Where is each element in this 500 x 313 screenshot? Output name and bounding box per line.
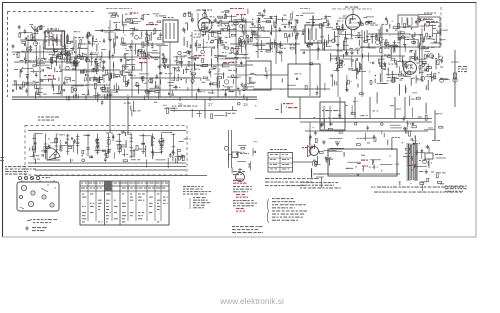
left margin marks — [0, 158, 4, 161]
power supply boundary box — [328, 149, 397, 176]
red annotation 11 — [250, 37, 257, 38]
interconnect wire h1 — [95, 30, 162, 32]
red annotation 16 — [426, 21, 438, 22]
output stage boundary — [418, 13, 440, 49]
red annotation 3 — [44, 33, 52, 34]
keyboard switch stack S5 — [76, 134, 80, 155]
red annotation 5 — [44, 75, 54, 76]
bandfilter can L1 — [45, 29, 65, 50]
interconnect wire h21 — [14, 61, 80, 63]
band switch components — [118, 52, 161, 100]
dial lamp symbols row — [18, 176, 50, 179]
tube V3 label — [345, 7, 358, 8]
red annotation 2 — [146, 24, 158, 25]
IF transformer can F1 — [163, 17, 178, 42]
keyboard right link components — [224, 141, 257, 173]
interconnect wire h3 — [212, 30, 305, 32]
keyboard top rail wire — [28, 130, 186, 132]
voltage table body values — [82, 194, 168, 223]
IF stage 2 components — [306, 15, 345, 52]
junction wire v10 — [454, 50, 456, 107]
PSU bottom wire — [313, 173, 400, 175]
red annotation 1 — [130, 13, 138, 14]
ratio detector box — [320, 102, 345, 130]
stage wire v4 — [146, 30, 148, 97]
top right wire — [418, 14, 432, 16]
stage wire v7 — [217, 32, 219, 97]
frame left border — [2, 2, 4, 237]
tube socket V3 position — [28, 201, 33, 206]
keyboard strip rail 1 — [28, 162, 186, 164]
keyboard unit dashed boundary — [25, 126, 187, 176]
detector lower components — [206, 50, 256, 99]
output transformer area components — [391, 52, 450, 90]
keyboard switch stack S12 — [151, 134, 155, 154]
keyboard switch stack S11 — [141, 134, 145, 154]
tube V1 label — [197, 10, 212, 11]
ground symbol antenna — [11, 44, 15, 48]
stage wire v17 — [421, 28, 423, 82]
red note column 1 — [233, 180, 246, 184]
junction wire v2 — [127, 101, 129, 135]
interconnect wire h4 — [12, 51, 70, 53]
interconnect wire h17 — [60, 69, 120, 71]
arrow note under chassis — [27, 219, 57, 223]
psu left components — [311, 148, 343, 188]
stage wire v9 — [257, 20, 259, 58]
interconnect wire h12 — [20, 39, 60, 41]
stage wire v5 — [169, 42, 171, 97]
rectifier B1 — [425, 147, 443, 168]
feedback network components — [345, 83, 427, 106]
long caption line 2 — [374, 192, 462, 193]
keyboard switch stack S14 — [172, 134, 176, 156]
keyboard switch stack S9 — [117, 134, 121, 154]
stage wire v18 — [39, 45, 41, 97]
tuner lower section components — [12, 53, 54, 99]
small switch symbol — [229, 152, 249, 158]
tube V4 EL84 envelope — [404, 56, 417, 75]
keyboard switch stack S13 — [160, 134, 164, 154]
long caption line 1 — [371, 187, 464, 188]
stage wire v15 — [381, 25, 383, 82]
HT bus wire upper — [12, 96, 257, 98]
measurement conditions text — [183, 186, 211, 195]
mains transformer T1 — [407, 144, 419, 180]
junction wire v1 — [109, 99, 111, 133]
right margin note mid — [445, 186, 467, 192]
stage wire v24 — [245, 20, 247, 60]
chassis dashed boundary top — [8, 11, 96, 13]
stage wire v1 — [61, 30, 63, 96]
stage wire v13 — [337, 28, 339, 97]
svg-text:27: 27 — [208, 102, 213, 107]
AM mixer stage components — [108, 12, 168, 59]
tube socket V5 position — [20, 196, 23, 199]
ground note text — [32, 227, 47, 231]
top margin label 2 — [300, 7, 310, 10]
mains label 220V red — [361, 160, 368, 167]
red note column 3 — [236, 208, 245, 212]
stage wire v23 — [309, 29, 311, 96]
junction wire v6 — [354, 97, 356, 119]
keyboard switch bank components — [29, 131, 190, 168]
speaker LS1 — [308, 146, 319, 157]
keyboard switch stack S8 — [107, 134, 111, 154]
junction wire v5 — [339, 97, 341, 119]
heater rail wire 2 — [305, 130, 428, 132]
stage wire v21 — [131, 40, 133, 97]
tube V1 ECH81 envelope — [198, 12, 212, 32]
tube socket V1 position — [21, 185, 26, 190]
oscillator coil can F2 — [305, 22, 322, 43]
black note mid 2 — [233, 200, 257, 206]
note Dm3 top — [233, 171, 245, 175]
stage wire v6 — [191, 32, 193, 97]
svg-text:www.elektronik.si: www.elektronik.si — [219, 296, 284, 306]
stage wire v16 — [399, 30, 401, 62]
junction wire v9 — [404, 97, 406, 119]
chassis rear view outline — [17, 182, 59, 211]
keyboard switch stack S4 — [66, 134, 70, 155]
FM front end components — [228, 8, 273, 54]
alignment instruction line 2 — [265, 185, 305, 186]
tube V3 EABC80 envelope — [346, 9, 361, 30]
top margin label 3 — [332, 8, 372, 11]
stage wire v2 — [87, 35, 89, 96]
alignment instruction line 1 — [265, 178, 319, 183]
bus tick node 4 label 15 — [243, 97, 248, 107]
keyboard switch stack S10 — [129, 134, 133, 159]
IF stage 1 components — [266, 11, 315, 62]
keyboard switch stack S2 — [44, 134, 48, 160]
heater wiring components — [309, 117, 443, 150]
top margin label 1 — [106, 7, 132, 10]
interconnect wire h2 — [212, 21, 252, 23]
black note mid — [233, 186, 252, 192]
interconnect wire h16 — [368, 33, 410, 35]
keyboard strip rail 3 — [35, 169, 186, 171]
interconnect wire h11 — [255, 74, 288, 76]
antenna input stage components — [17, 24, 52, 58]
stage wire v12 — [317, 43, 319, 60]
right margin component — [451, 62, 459, 82]
bus annotation marks — [101, 100, 257, 119]
interconnect wire h10 — [360, 46, 440, 48]
red annotation 15 — [337, 29, 345, 30]
discriminator can box — [398, 15, 418, 27]
interconnect wire h15 — [300, 49, 360, 51]
red annotation 12 — [223, 62, 235, 63]
chassis dashed boundary left — [7, 12, 9, 98]
interconnect wire h19 — [253, 88, 330, 90]
interconnect wire h14 — [230, 43, 300, 45]
red annotation 4 — [75, 37, 84, 38]
frame right border — [475, 3, 477, 237]
red annotation 14 — [288, 107, 297, 108]
junction wire v3 — [204, 99, 206, 118]
watermark www.elektronik.si — [219, 296, 284, 306]
svg-text:15: 15 — [243, 102, 248, 107]
tone network components — [331, 50, 400, 91]
keyboard strip rail 2 — [28, 166, 186, 168]
keyboard switch stack S7 — [96, 134, 100, 155]
psu interior components — [344, 152, 400, 176]
wave range text block — [5, 166, 36, 175]
red annotation 9 — [194, 55, 205, 56]
stage wire v3 — [109, 20, 111, 97]
bus tick node 3 label 27 — [208, 97, 213, 107]
bus tick node 2 label 25 — [178, 97, 183, 107]
frame bottom border — [2, 236, 477, 238]
stage wire v8 — [235, 20, 237, 97]
interconnect wire h7 — [12, 84, 110, 86]
tube socket V2 position — [31, 191, 35, 195]
red annotation 8 — [139, 62, 147, 63]
keyboard switch stack S6 — [86, 134, 90, 156]
interconnect wire h6 — [160, 64, 253, 66]
measurement list items — [190, 197, 210, 209]
interconnect wire h18 — [130, 77, 200, 79]
interconnect wire h9 — [330, 55, 405, 57]
red annotation 6 — [50, 79, 56, 80]
coupling network box 1 — [246, 61, 271, 90]
right margin note top — [458, 66, 467, 72]
tube complement list — [272, 198, 307, 221]
HT bus wire lower — [12, 98, 257, 100]
red annotation 10 — [236, 14, 246, 15]
transformer voltage label red 1 — [413, 143, 420, 144]
AF output stage components — [368, 16, 448, 61]
ground note symbol — [25, 226, 29, 230]
demodulator components — [332, 16, 376, 56]
magic eye EM80 envelope — [236, 168, 245, 182]
bottom remark lines — [232, 226, 263, 233]
voltage table header text — [81, 183, 168, 189]
chassis detail marks — [20, 184, 56, 209]
left rail label text — [38, 117, 59, 121]
AVC rail wire — [170, 106, 237, 111]
red annotation 7 — [139, 58, 150, 59]
junction wire v4 — [299, 97, 301, 119]
junction wire v11 — [434, 110, 436, 141]
stage wire v20 — [75, 40, 77, 96]
stage wire v19 — [27, 35, 29, 96]
coil pack components — [51, 51, 121, 102]
keyboard switch stack S3 — [54, 134, 58, 155]
stage wire v22 — [159, 46, 161, 97]
anode rail components — [275, 101, 442, 120]
tuning gang capacitor — [47, 147, 60, 160]
chassis top tabs — [22, 181, 54, 183]
keyboard strip rail 4 — [35, 175, 207, 177]
top margin label red — [230, 8, 244, 9]
heater rail wire 1 — [300, 121, 432, 123]
keyboard switch stack S1 — [32, 134, 36, 159]
stage wire v11 — [295, 20, 297, 64]
interconnect wire h8 — [110, 89, 253, 91]
interconnect wire h5 — [70, 56, 160, 58]
psu note text — [300, 182, 341, 189]
junction wire v7 — [369, 97, 371, 119]
coupling box area components — [264, 63, 325, 96]
frame top border — [2, 2, 477, 4]
table to psu wire — [293, 161, 313, 163]
RF input stage components — [50, 28, 113, 72]
stage wire v10 — [275, 18, 277, 64]
interconnect wire h13 — [120, 43, 165, 45]
rectifier area components — [399, 140, 446, 191]
chassis dashed boundary right — [440, 7, 442, 48]
oscillator stage components around V1 — [182, 9, 237, 57]
voltage table grid — [80, 181, 169, 225]
coupling network box 2 — [288, 64, 320, 97]
junction wire v8 — [394, 97, 396, 119]
tube socket V6 position — [42, 195, 46, 199]
transformer voltage label red 2 — [411, 165, 417, 166]
IF lower components — [161, 50, 208, 100]
tube socket V4 position — [50, 203, 54, 207]
brace for tube list — [267, 199, 268, 223]
red note column 2 — [236, 194, 248, 198]
heater drop wire — [309, 122, 311, 146]
red annotation 17 — [302, 147, 312, 148]
interconnect wire h20 — [225, 57, 250, 59]
red annotation 13 — [283, 103, 293, 104]
balance table box — [268, 149, 293, 172]
bus tick node 1 — [124, 97, 131, 104]
anode rail wire right — [255, 118, 432, 120]
antenna symbol — [30, 26, 40, 40]
stage wire v14 — [361, 30, 363, 97]
EM80 feed wire pair — [229, 130, 232, 168]
